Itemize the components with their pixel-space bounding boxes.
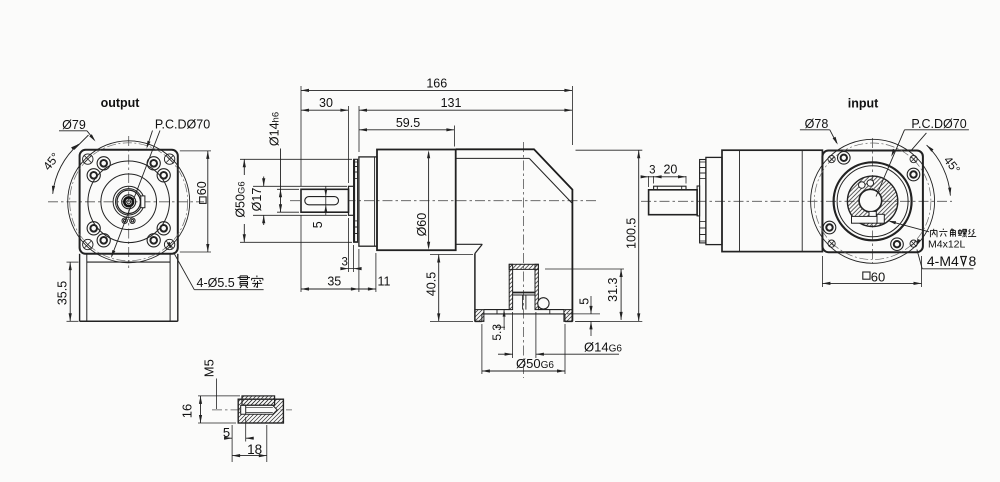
label hex socket screw: [933, 229, 935, 232]
svg-text:30: 30: [319, 96, 333, 110]
output shaft (side): [649, 190, 698, 215]
dim 100.5: [576, 149, 643, 151]
input coupling (hatched): [847, 176, 897, 226]
collar circles: [113, 186, 144, 217]
svg-text:100.5: 100.5: [624, 218, 638, 249]
centerline vertical: [128, 136, 130, 268]
housing step to bottom flange: [456, 243, 483, 245]
output shaft: [301, 189, 349, 212]
svg-text:input: input: [848, 97, 879, 111]
view: side: [234, 77, 643, 379]
key on shaft: [654, 186, 686, 190]
dim D50G6 (bottom): [481, 324, 483, 374]
dim D14G6: [512, 312, 514, 358]
dim 5 keyway: [325, 186, 327, 216]
shaft end block: [238, 399, 283, 423]
svg-text:5: 5: [223, 425, 230, 440]
flange plate: [359, 157, 377, 246]
dim 30: [347, 106, 349, 183]
45 deg extension: [911, 133, 926, 150]
8 face screw holes: [147, 234, 160, 247]
shaft circles: [117, 190, 140, 213]
input flange square: [822, 151, 923, 253]
centerline: [212, 409, 292, 411]
key: [242, 396, 275, 405]
svg-text:59.5: 59.5: [396, 116, 420, 130]
dim D60: [428, 153, 430, 248]
svg-text:5.3: 5.3: [490, 324, 504, 341]
circle D78: [811, 139, 935, 263]
pilot circle D50: [88, 161, 170, 243]
clamp slot: [852, 216, 878, 223]
svg-text:5: 5: [578, 298, 592, 305]
dim 5 (recess): [567, 313, 600, 315]
label 4-D5.5 through: [174, 252, 195, 289]
45 deg arc dim: [53, 144, 79, 194]
svg-text:60: 60: [195, 181, 209, 195]
coupling holes: [859, 182, 866, 189]
bore keyway: [869, 211, 876, 216]
svg-text:Ø17: Ø17: [250, 188, 264, 212]
body below flange: [79, 254, 81, 321]
svg-text:4-M4: 4-M4: [927, 253, 959, 269]
body (side): [722, 150, 822, 251]
boss: [697, 186, 700, 216]
dim 166: [300, 86, 302, 186]
P.C.D 70 circle: [814, 143, 931, 260]
centerline horizontal: [290, 200, 596, 202]
dim D17: [253, 185, 347, 187]
flange feet (section): [475, 310, 484, 322]
svg-text:M4x12L: M4x12L: [928, 239, 966, 251]
face circle: [101, 174, 157, 230]
view: output face: [40, 96, 263, 321]
svg-text:M5: M5: [202, 359, 217, 377]
shaft keyway slot: [305, 197, 339, 205]
clamp screw: [877, 214, 884, 223]
circle D79: [68, 141, 190, 263]
dim 35.5: [67, 261, 79, 263]
4 corner holes 5.5: [164, 239, 174, 249]
svg-text:16: 16: [180, 404, 195, 418]
coupling slit: [513, 292, 535, 294]
dim square60: [180, 150, 211, 152]
svg-text:Ø60: Ø60: [415, 213, 429, 237]
svg-text:20: 20: [663, 163, 677, 177]
pilot circles: [834, 162, 912, 240]
dim 3 / 20 (key): [648, 176, 650, 187]
svg-text:166: 166: [426, 77, 447, 91]
svg-text:3: 3: [341, 256, 347, 268]
45 deg extension: [74, 135, 89, 150]
shaft boss: [349, 186, 354, 215]
dim D50G6 (left): [240, 158, 352, 160]
dim 59.5: [453, 126, 455, 147]
4 corner holes M4: [910, 240, 917, 247]
pilot strip: [354, 159, 358, 242]
45 deg arc dim: [927, 145, 951, 196]
svg-text:35: 35: [327, 275, 341, 289]
svg-text:Ø79: Ø79: [62, 118, 86, 132]
svg-text:3: 3: [649, 165, 655, 177]
housing inner lines: [456, 157, 530, 159]
keyway on collar: [141, 196, 145, 208]
centerline horizontal: [48, 201, 204, 203]
dim 31.3: [545, 268, 624, 270]
strip serrations: [354, 162, 358, 167]
svg-text:60: 60: [871, 269, 885, 284]
svg-text:40.5: 40.5: [425, 272, 439, 296]
input bore D14: [859, 189, 882, 212]
centerline vertical: [872, 138, 874, 263]
svg-text:18: 18: [247, 442, 262, 457]
body cylinder D60: [377, 150, 456, 251]
centerline horizontal: [641, 200, 952, 202]
set screws below center: [122, 218, 127, 223]
pilot recess D50: [482, 313, 565, 315]
dim square60 (input): [821, 256, 823, 287]
dim 16: [198, 395, 240, 397]
dim 18: [266, 425, 268, 462]
view: input: [641, 97, 977, 288]
svg-text:31.3: 31.3: [606, 277, 620, 301]
housing outline: [456, 149, 573, 321]
center tapped hole: [124, 197, 133, 206]
dim 35 / 11: [300, 215, 302, 292]
svg-text:output: output: [101, 96, 141, 110]
dim D14h6: [277, 188, 299, 190]
clamp screw head: [538, 298, 549, 309]
cavity floor: [484, 309, 509, 311]
svg-text:P.C.DØ70: P.C.DØ70: [155, 117, 210, 131]
svg-text:Ø50G6: Ø50G6: [234, 181, 248, 217]
output flange square: [80, 150, 178, 254]
dim 40.5: [430, 254, 473, 256]
svg-text:35.5: 35.5: [56, 281, 70, 305]
svg-text:8: 8: [969, 253, 977, 269]
dim 5: [231, 425, 233, 462]
svg-text:P.C.DØ70: P.C.DØ70: [911, 117, 966, 131]
view: shaft end detail: [180, 359, 293, 462]
svg-text:4-Ø5.5: 4-Ø5.5: [197, 276, 235, 290]
dim 3 (boss): [347, 218, 349, 272]
svg-text:5: 5: [311, 221, 325, 228]
flange plate: [706, 157, 722, 244]
dim 131: [358, 106, 360, 152]
centerline vertical (input axis): [522, 142, 524, 378]
svg-text:Ø78: Ø78: [805, 117, 829, 131]
svg-text:11: 11: [378, 275, 391, 289]
input coupling column (section): [509, 264, 512, 309]
4 input screw holes: [838, 152, 851, 165]
dim 5.3: [503, 310, 505, 330]
svg-text:131: 131: [441, 96, 462, 110]
pilot strip: [700, 160, 706, 243]
svg-text:Ø14h6: Ø14h6: [268, 112, 282, 146]
bottom flange: [474, 254, 476, 322]
P.C.D 70 circle: [70, 143, 188, 261]
M5 tapped hole: [241, 405, 278, 414]
